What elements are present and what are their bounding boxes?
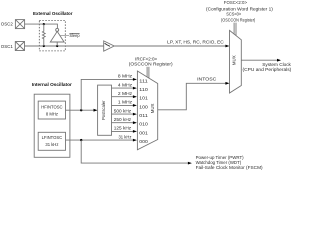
svg-text:Internal Oscillator: Internal Oscillator (32, 82, 72, 87)
svg-text:31 kHz: 31 kHz (119, 134, 132, 139)
label Sleep (inverted) (69, 33, 80, 38)
node junction 31 kHz branch (80, 139, 82, 141)
svg-text:8 MHz: 8 MHz (46, 111, 58, 116)
svg-text:100: 100 (139, 104, 148, 109)
box internal oscillator (34, 94, 70, 157)
svg-text:500 kHz: 500 kHz (114, 108, 131, 113)
label OSC2 (1, 21, 13, 26)
wire IRCF select line a (146, 67, 148, 77)
svg-text:101: 101 (139, 96, 148, 101)
dashed box external oscillator (39, 20, 65, 51)
wire OSC2 to inverter output (25, 24, 58, 28)
wire IRCF select line b (148, 67, 150, 78)
wire to timers (81, 140, 192, 164)
svg-text:(OSCCON Register): (OSCCON Register) (129, 61, 173, 66)
wire OSC1 to buffer input (25, 45, 104, 47)
label OSC1 (1, 44, 13, 49)
label IRCF (135, 57, 157, 62)
label System Clock (262, 62, 291, 67)
label 500 kHz (114, 108, 131, 113)
svg-text:MUX: MUX (232, 55, 237, 65)
svg-text:FOSC<2:0>: FOSC<2:0> (224, 0, 248, 5)
svg-text:111: 111 (139, 78, 148, 83)
label 8 MHz (118, 74, 132, 79)
mux system clock MUX (230, 30, 242, 93)
node junction resistor bottom (43, 45, 45, 47)
op-amp inverter external oscillator (50, 28, 64, 46)
wire FOSC select line (233, 23, 235, 34)
label 125 kHz (114, 126, 131, 131)
node junction resistor top (43, 23, 45, 25)
wire system clock output (241, 59, 281, 62)
wire INTOSC to system MUX (158, 82, 230, 110)
wire HFINTOSC to postscaler (66, 109, 98, 112)
label OSCCON Register top (221, 18, 256, 23)
label Watchdog Timer (196, 160, 242, 165)
pin OSC1 (15, 42, 24, 51)
svg-text:OSC2: OSC2 (1, 21, 13, 26)
svg-text:MUX: MUX (150, 103, 155, 113)
label 4 MHz (118, 82, 132, 87)
box LFINTOSC (38, 132, 65, 150)
svg-text:LP, XT, HS, RC, RCIO, EC: LP, XT, HS, RC, RCIO, EC (167, 40, 224, 45)
pin code 010 (139, 122, 148, 127)
wire postscaler 500 kHz (112, 113, 137, 116)
node junction 8 MHz branch (80, 109, 82, 111)
buffer external clock (104, 41, 115, 51)
svg-text:LFINTOSC: LFINTOSC (42, 135, 63, 140)
wire postscaler 4 MHz (112, 87, 137, 90)
box postscaler (98, 85, 112, 135)
pin code 000 (139, 139, 148, 144)
svg-text:(OSCCON Register): (OSCCON Register) (221, 18, 256, 23)
label LP XT HS RC RCIO EC (167, 40, 224, 45)
svg-text:INTOSC: INTOSC (197, 77, 216, 82)
svg-text:011: 011 (139, 113, 148, 118)
svg-text:8 MHz: 8 MHz (118, 74, 132, 79)
label 31 kHz (119, 134, 132, 139)
pin code 100 (139, 104, 148, 109)
svg-text:SCS<0>: SCS<0> (226, 12, 241, 17)
wire postscaler 1 MHz (112, 104, 137, 107)
label SCS (226, 12, 241, 17)
label FOSC (224, 0, 248, 5)
svg-text:OSC1: OSC1 (1, 44, 13, 49)
label Internal Oscillator (32, 82, 72, 87)
svg-text:4 MHz: 4 MHz (118, 82, 132, 87)
svg-text:125 kHz: 125 kHz (114, 126, 131, 131)
mux INTOSC MUX (137, 71, 157, 150)
pin OSC2 (15, 20, 24, 29)
box HFINTOSC (38, 101, 65, 119)
svg-text:110: 110 (139, 87, 148, 92)
label Power-up Timer (196, 155, 245, 160)
label 2 MHz (118, 91, 132, 96)
wire LFINTOSC 31 kHz (66, 139, 137, 142)
svg-text:010: 010 (139, 122, 148, 127)
pin code 101 (139, 96, 148, 101)
wire 8 MHz bypass (81, 78, 137, 110)
label CPU and Peripherals (243, 67, 292, 72)
label Fail-Safe Clock Monitor (196, 165, 264, 170)
node junction inverter input (56, 45, 58, 47)
svg-text:(CPU and Peripherals): (CPU and Peripherals) (243, 67, 292, 72)
svg-text:Fail-Safe Clock Monitor (FSCM): Fail-Safe Clock Monitor (FSCM) (196, 165, 264, 170)
svg-text:External Oscillator: External Oscillator (33, 11, 73, 16)
label 250 kHz (114, 117, 131, 122)
pin code 110 (139, 87, 148, 92)
pin code 111 (139, 78, 148, 83)
wire postscaler 250 kHz (112, 121, 137, 124)
svg-text:HFINTOSC: HFINTOSC (41, 105, 62, 110)
svg-text:1 MHz: 1 MHz (118, 100, 132, 105)
svg-text:000: 000 (139, 139, 148, 144)
svg-text:250 kHz: 250 kHz (114, 117, 131, 122)
wire SCS select line (235, 23, 237, 36)
label Configuration Word Register 1 (206, 7, 273, 12)
resistor feedback (42, 24, 45, 46)
svg-text:001: 001 (139, 130, 148, 135)
svg-text:Postscaler: Postscaler (101, 100, 106, 120)
wire external clock to MUX (114, 45, 229, 48)
svg-text:31 kHz: 31 kHz (45, 142, 58, 147)
pin code 011 (139, 113, 148, 118)
pin code 001 (139, 130, 148, 135)
label INTOSC (197, 77, 216, 82)
wire sleep enable (60, 34, 69, 36)
label External Oscillator (33, 11, 73, 16)
label OSCCON Register bottom (129, 61, 173, 66)
svg-text:2 MHz: 2 MHz (118, 91, 132, 96)
wire postscaler 125 kHz (112, 130, 137, 133)
wire postscaler 2 MHz (112, 95, 137, 98)
label 1 MHz (118, 100, 132, 105)
